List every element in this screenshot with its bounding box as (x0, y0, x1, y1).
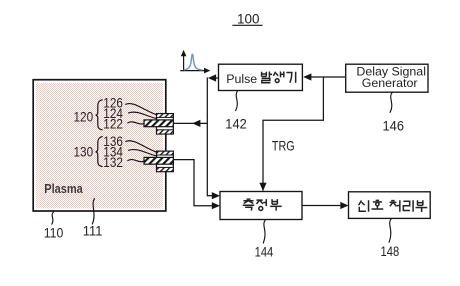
wire: delay generator to pulse generator (310, 76, 346, 78)
probe 2 (132/134/136): outer conductor bottom band (157, 167, 174, 171)
wire: probe 2 to measurement input 2 (173, 160, 212, 206)
leader 126 to probe 1 outer (126, 104, 157, 115)
leader for 142 (236, 91, 238, 111)
probe 1 (122/124/126): flange body (157, 114, 174, 134)
svg-text:144: 144 (255, 244, 274, 259)
svg-text:Generator: Generator (362, 76, 418, 90)
probe 1 (122/124/126): center rod (144, 120, 173, 127)
probe 2 (132/134/136): center rod (144, 157, 173, 164)
arrowhead at pulse output junction (208, 74, 216, 81)
svg-text:130: 130 (74, 145, 94, 160)
arrowhead into signal processor (340, 202, 348, 209)
leader for 148 (389, 219, 391, 243)
svg-text:110: 110 (44, 225, 64, 240)
svg-text:Plasma: Plasma (44, 182, 83, 196)
arrowhead into pulse generator (303, 73, 311, 80)
probe 2 (132/134/136): outer conductor top band (157, 151, 174, 155)
wire: probe 1 feed line (173, 122, 207, 124)
pulse waveform icon: vertical axis (183, 55, 185, 72)
leader for 146 (390, 92, 392, 112)
leader 136 to probe 2 outer (126, 141, 157, 152)
svg-text:TRG: TRG (272, 138, 295, 153)
box: measurement unit U144 (220, 192, 302, 220)
leader 124 to probe 1 insulator (129, 112, 157, 118)
svg-text:100: 100 (237, 11, 260, 26)
brace for 120 group (96, 100, 103, 130)
wire: measurement to signal processor (302, 205, 340, 207)
arrowhead TRG into measurement box (259, 183, 266, 191)
svg-text:120: 120 (74, 109, 94, 124)
leader for 144 (263, 220, 265, 243)
wire: into measurement input 1 (207, 195, 212, 197)
box: pulse generator U142 (219, 64, 303, 90)
probe 1 (122/124/126): outer conductor top band (157, 114, 174, 118)
pulse waveform icon: horizontal axis (180, 70, 206, 72)
underline of 100 (232, 24, 262, 26)
leader 122 to probe 1 rod (128, 122, 145, 124)
arrowhead into measurement input 2 (212, 202, 220, 209)
box: signal processor U148 (349, 192, 431, 219)
svg-text:Pulse: Pulse (226, 72, 257, 86)
probe 1 (122/124/126): outer conductor bottom band (157, 130, 174, 134)
label: 신호 처리부 (359, 200, 362, 205)
leader for 111 (92, 199, 94, 225)
brace for 130 group (96, 137, 103, 167)
arrowhead into measurement input 1 (212, 192, 220, 199)
svg-text:132: 132 (103, 155, 123, 170)
arrowhead on probe 1 feed (192, 120, 200, 127)
svg-text:148: 148 (381, 244, 400, 259)
leader 134 to probe 2 insulator (129, 150, 157, 156)
leader for 110 (52, 212, 54, 224)
svg-text:146: 146 (383, 119, 405, 134)
svg-text:122: 122 (103, 116, 123, 131)
label: 측정부 (247, 198, 251, 200)
wire: vertical bus from pulse generator down to measurement (206, 77, 208, 196)
probe 2 (132/134/136): flange body (157, 151, 174, 171)
wire: pulse generator output stub (216, 77, 219, 79)
svg-text:142: 142 (225, 117, 247, 132)
plasma chamber box 110 (36, 83, 163, 209)
pulse waveform icon: gaussian pulse curve (184, 54, 202, 70)
box: delay signal generator U146 (346, 64, 428, 92)
svg-text:111: 111 (83, 223, 103, 238)
wire: TRG trigger line (263, 77, 323, 191)
leader 132 to probe 2 rod (128, 160, 145, 162)
